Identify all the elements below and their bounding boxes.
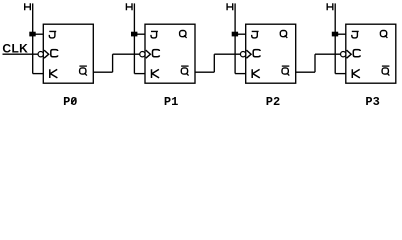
pin label Q bbox=[280, 31, 286, 37]
pin label Q-bar glyph bbox=[80, 68, 86, 74]
wire: junction to J pin bbox=[235, 33, 246, 35]
flip-flop P2 (U3) bbox=[227, 3, 340, 109]
pin label K bbox=[352, 69, 360, 78]
svg-text:P3: P3 bbox=[365, 95, 379, 109]
svg-text:P0: P0 bbox=[63, 95, 77, 109]
slash through zero of P0 bbox=[71, 98, 76, 104]
overline of Q-bar bbox=[79, 65, 87, 67]
wire: H line into K pin bbox=[235, 73, 246, 75]
wire: H line into K pin bbox=[335, 73, 346, 75]
flip-flop P0 body rectangle bbox=[43, 24, 93, 83]
wire: ripple step vertical P1 to next stage bbox=[213, 54, 215, 72]
pin label J bbox=[151, 31, 158, 37]
wire: H pull-up vertical down to K row bbox=[334, 3, 336, 73]
wire: H pull-up vertical down to K row bbox=[32, 3, 34, 73]
pin label Q-bar glyph bbox=[382, 68, 388, 74]
pin label K bbox=[50, 69, 58, 78]
pin label J bbox=[49, 31, 56, 37]
clock inversion bubble of P2 bbox=[240, 52, 245, 57]
flip-flop P0 (U1) bbox=[25, 3, 140, 109]
pin label Q bbox=[180, 31, 186, 37]
wire: ripple step vertical P0 to next stage bbox=[112, 54, 114, 72]
clock inversion bubble of P3 bbox=[341, 52, 346, 57]
flip-flop P3 (U4) bbox=[327, 3, 396, 109]
pin label Q-bar glyph bbox=[181, 68, 187, 74]
wire: H line into K pin bbox=[33, 73, 44, 75]
node H (logic high) label for P2 bbox=[227, 3, 233, 10]
junction dot at J row bbox=[29, 32, 35, 37]
pin label C bbox=[253, 50, 260, 57]
clock edge-trigger triangle of P1 bbox=[146, 50, 151, 58]
clock edge-trigger triangle of P2 bbox=[247, 50, 252, 58]
pin label K bbox=[152, 69, 160, 78]
clock inversion bubble of P0 bbox=[38, 52, 43, 57]
wire: horizontal into next clock bubble bbox=[113, 53, 140, 55]
node H (logic high) label for P1 bbox=[126, 3, 132, 10]
wire: H pull-up vertical down to K row bbox=[234, 3, 236, 73]
pin label Q bbox=[380, 31, 386, 37]
flip-flop P3 body rectangle bbox=[346, 24, 396, 83]
wire: horizontal into next clock bubble bbox=[214, 53, 240, 55]
clock inversion bubble of P1 bbox=[140, 52, 145, 57]
flip-flop P1 body rectangle bbox=[145, 24, 195, 83]
wire: CLK input to P0 clock bubble bbox=[3, 53, 39, 55]
wire: ripple step vertical P2 to next stage bbox=[314, 54, 316, 72]
pin label K bbox=[252, 69, 260, 78]
pin label J bbox=[352, 31, 359, 37]
clock edge-trigger triangle of P3 bbox=[347, 50, 352, 58]
wire: junction to J pin bbox=[33, 33, 44, 35]
node H (logic high) label for P0 bbox=[25, 3, 31, 10]
wire: H pull-up vertical down to K row bbox=[133, 3, 135, 73]
junction dot at J row bbox=[131, 32, 137, 37]
flip-flop P2 body rectangle bbox=[246, 24, 296, 83]
overline of Q-bar bbox=[282, 65, 290, 67]
pin label C bbox=[51, 50, 58, 57]
wire: junction to J pin bbox=[134, 33, 145, 35]
wire: Q-bar output stub of P0 bbox=[93, 71, 112, 73]
svg-text:P1: P1 bbox=[164, 95, 178, 109]
wire: Q-bar output stub of P2 bbox=[296, 71, 315, 73]
pin label J bbox=[252, 31, 259, 37]
clock edge-trigger triangle of P0 bbox=[44, 50, 49, 58]
junction dot at J row bbox=[332, 32, 338, 37]
wire: horizontal into next clock bubble bbox=[315, 53, 341, 55]
wire: junction to J pin bbox=[335, 33, 346, 35]
junction dot at J row bbox=[232, 32, 238, 37]
pin label C bbox=[153, 50, 160, 57]
wire: H line into K pin bbox=[134, 73, 145, 75]
wire: Q-bar output stub of P1 bbox=[195, 71, 214, 73]
svg-text:CLK: CLK bbox=[2, 42, 28, 56]
svg-text:P2: P2 bbox=[266, 95, 280, 109]
pin label C bbox=[353, 50, 360, 57]
flip-flop P1 (U2) bbox=[126, 3, 240, 109]
pin label Q-bar glyph bbox=[282, 68, 288, 74]
node H (logic high) label for P3 bbox=[327, 3, 333, 10]
overline of Q-bar bbox=[181, 65, 189, 67]
overline of Q-bar bbox=[382, 65, 390, 67]
